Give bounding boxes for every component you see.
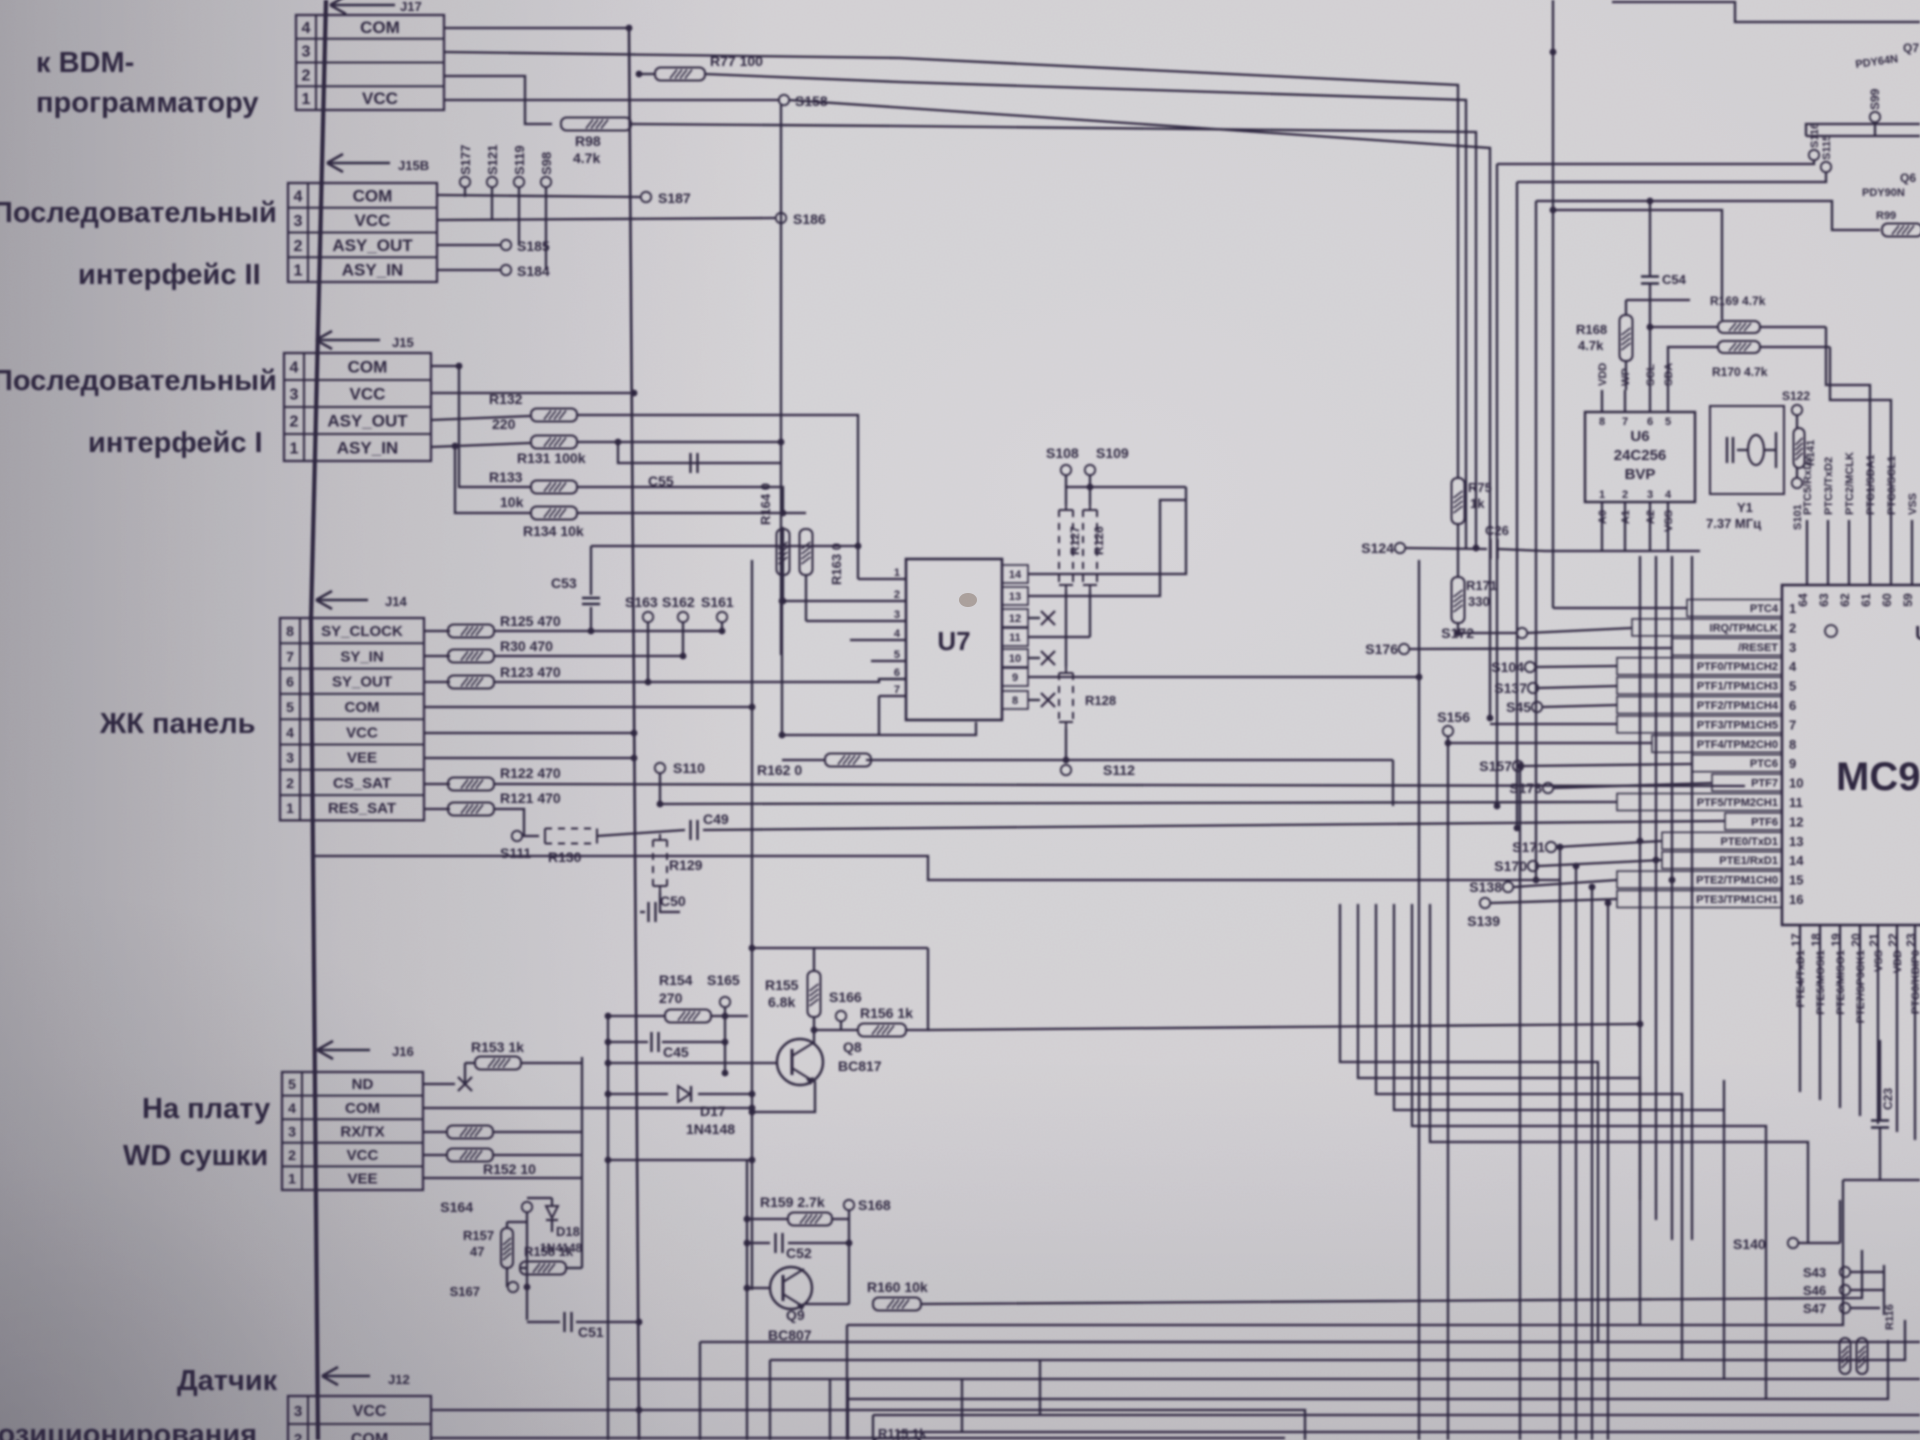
testpoint S187: [641, 190, 691, 206]
svg-text:59: 59: [1901, 593, 1915, 607]
wire S156 down: [1445, 736, 1452, 1440]
svg-text:S115: S115: [1821, 135, 1833, 160]
resistor R141 (vertical): [1794, 428, 1818, 468]
svg-text:4: 4: [302, 20, 311, 37]
testpoint S139: [1467, 898, 1500, 929]
svg-text:1: 1: [286, 800, 294, 816]
svg-text:PTC4: PTC4: [1750, 603, 1779, 615]
testpoint S119 with stub: [512, 145, 527, 245]
wire S168 column: [846, 1219, 853, 1304]
chip U6 24C256 body: [1585, 412, 1695, 502]
svg-text:R126: R126: [1092, 526, 1106, 555]
wire bundle vert 3: [1533, 201, 1540, 883]
svg-text:VSS: VSS: [1873, 950, 1885, 972]
svg-text:Последовательный: Последовательный: [0, 365, 277, 397]
U5 pin 5 label box PTF1/TPM1CH3: [1617, 677, 1796, 694]
resistor R162 0: [757, 732, 871, 778]
testpoint S140: [1733, 1236, 1840, 1252]
svg-text:4: 4: [288, 1100, 296, 1116]
arrow J12: [322, 1367, 410, 1387]
svg-text:Датчик: Датчик: [177, 1365, 278, 1397]
connector J15B: [288, 183, 437, 282]
text позиционирования: [0, 1419, 257, 1440]
svg-text:S45: S45: [1506, 699, 1531, 715]
wire S137 to pin5: [1539, 686, 1617, 688]
testpoint S108: [1046, 445, 1079, 487]
crystal Y1 box: [1710, 406, 1784, 494]
svg-text:S177: S177: [458, 145, 473, 175]
wire R169 ends: [1650, 326, 1826, 328]
testpoint S161: [701, 594, 734, 631]
testpoint S112: [1061, 762, 1135, 778]
U6 top pin 5 SDA: [1663, 363, 1675, 428]
svg-text:19: 19: [1829, 933, 1843, 947]
svg-text:20: 20: [1849, 933, 1863, 947]
svg-text:S47: S47: [1803, 1301, 1826, 1316]
wire net B (R77 out) to right bundle: [705, 74, 1466, 548]
testpoint S177 with stub: [458, 145, 473, 197]
testpoint S167: [450, 1282, 531, 1299]
svg-text:S164: S164: [440, 1199, 473, 1215]
svg-text:Q9: Q9: [786, 1307, 805, 1323]
wire S165 column: [722, 1016, 729, 1076]
svg-text:VEE: VEE: [347, 750, 377, 767]
svg-text:VSS: VSS: [1663, 510, 1675, 532]
wire Q9 base: [744, 1285, 769, 1292]
svg-text:6: 6: [286, 674, 294, 690]
testpoint S45: [1506, 699, 1542, 715]
svg-text:14: 14: [1009, 569, 1022, 581]
svg-text:6: 6: [1647, 416, 1653, 428]
wire R162 rail: [866, 760, 1393, 806]
resistor R160 10k: [867, 1279, 928, 1311]
wire crossing vert f: [1605, 900, 1612, 1440]
svg-text:ASY_IN: ASY_IN: [337, 439, 398, 458]
wire left vert x608: [607, 1016, 609, 1440]
wire bottom rail 3: [847, 1180, 1843, 1440]
resistor R155 6.8k (vertical): [765, 971, 821, 1017]
wire R134 out: [578, 510, 806, 517]
U7 pin 11 box: [1002, 628, 1028, 646]
U5 pin 8 label box PTF4/TPM2CH0: [1652, 735, 1796, 752]
svg-text:S46: S46: [1803, 1283, 1826, 1298]
wire R160 out long: [921, 1250, 1862, 1304]
wire R155 top: [752, 948, 814, 971]
svg-text:R153 1k: R153 1k: [471, 1039, 524, 1055]
resistor R134 10k: [523, 507, 584, 540]
wire J12.3 VCC: [431, 1407, 845, 1414]
wire crossing vert d: [1573, 863, 1580, 1440]
svg-text:PTF6: PTF6: [1751, 816, 1778, 828]
wire J14.6: [424, 681, 450, 683]
svg-text:COM: COM: [345, 1100, 380, 1117]
svg-text:2: 2: [294, 238, 303, 255]
wire net C (R98 out) to right bundle: [631, 124, 1479, 551]
svg-text:62: 62: [1838, 593, 1852, 607]
transistor Q9 BC807: [768, 1267, 812, 1343]
wire R77 net from V2: [636, 71, 655, 78]
text интерфейс II: [78, 259, 261, 291]
U5 top pin 59 VSS: [1901, 493, 1919, 607]
svg-text:S111: S111: [500, 845, 531, 861]
wire R171 to S172 rail: [1458, 623, 1516, 633]
wire vres R164 bottom to U7 pin2: [780, 527, 787, 604]
wire J12 VCC extension: [845, 1410, 1305, 1440]
svg-text:3: 3: [302, 44, 311, 61]
svg-text:2: 2: [290, 414, 299, 431]
U7 pin 10 box: [1002, 649, 1028, 667]
arrow J17: [330, 0, 422, 14]
svg-text:VCC: VCC: [362, 89, 398, 108]
svg-text:J17: J17: [400, 0, 422, 14]
wire crossing vert h: [1653, 556, 1660, 1220]
text к BDM-программатору: [36, 47, 259, 119]
svg-text:24C256: 24C256: [1614, 447, 1667, 464]
wire risers right of U6: [1826, 327, 1891, 520]
svg-text:PTF1/TPM1CH3: PTF1/TPM1CH3: [1697, 681, 1778, 693]
wire Q8 emitter: [749, 1081, 815, 1115]
svg-text:позиционирования: позиционирования: [0, 1419, 257, 1440]
svg-text:VCC: VCC: [350, 385, 386, 404]
wire vertical from S158 through S186: [780, 105, 782, 655]
svg-text:61: 61: [1859, 593, 1873, 607]
svg-text:C50: C50: [660, 893, 686, 909]
testpoint S185: [501, 238, 550, 254]
svg-text:8: 8: [1012, 695, 1018, 707]
svg-text:PTC2/MCLK: PTC2/MCLK: [1844, 452, 1856, 515]
svg-text:7: 7: [894, 684, 900, 696]
svg-text:Y1: Y1: [1737, 500, 1753, 515]
svg-text:R131 100k: R131 100k: [517, 450, 586, 466]
svg-text:8: 8: [286, 623, 294, 639]
wire rail to MCU pin11: [657, 801, 1617, 808]
svg-text:16: 16: [1789, 892, 1803, 907]
svg-text:SY_IN: SY_IN: [340, 648, 383, 665]
svg-text:S166: S166: [829, 989, 862, 1005]
svg-text:R154: R154: [659, 972, 693, 988]
svg-text:4: 4: [1665, 489, 1672, 501]
capacitor C23: [1871, 1040, 1895, 1180]
wire R163 bottom to U7 pin3: [805, 575, 807, 621]
svg-text:программатору: программатору: [36, 87, 259, 119]
svg-text:1: 1: [290, 441, 299, 458]
svg-text:R170 4.7k: R170 4.7k: [1712, 365, 1768, 379]
wire R127 to R128: [1065, 591, 1067, 667]
capacitor C50: [640, 893, 686, 922]
svg-text:PTE2/TPM1CH0: PTE2/TPM1CH0: [1696, 875, 1778, 887]
svg-text:PTE5/MOSI1: PTE5/MOSI1: [1815, 950, 1827, 1015]
resistor R-edge1 (partial): [1876, 210, 1920, 237]
wire J17.2 via R98: [444, 76, 552, 124]
svg-text:6: 6: [894, 667, 900, 679]
maze wire 2: [1358, 904, 1640, 1325]
wire net C down to C26 rail: [1473, 545, 1480, 552]
wire S99 net: [1806, 124, 1920, 136]
svg-text:R123 470: R123 470: [500, 664, 561, 680]
wire S138 to pin15: [1514, 880, 1617, 887]
wire R121 out: [494, 809, 539, 836]
svg-text:VCC: VCC: [355, 211, 391, 230]
wire J17.1 VCC long: [444, 99, 780, 101]
wire bottom rail 2: [770, 1320, 1905, 1440]
dashed resistor R129: [653, 834, 703, 912]
svg-text:23: 23: [1904, 933, 1918, 947]
resistor R171 330 (vertical): [1452, 577, 1498, 623]
svg-text:COM: COM: [353, 186, 393, 205]
svg-text:VSS: VSS: [1907, 493, 1919, 515]
wire bottom rail 1: [700, 1342, 1920, 1440]
arrow J15B: [327, 154, 429, 173]
U7 pin 5 stub: [871, 649, 906, 661]
svg-text:R77 100: R77 100: [710, 53, 763, 69]
svg-text:PTE0/TxD1: PTE0/TxD1: [1721, 836, 1778, 848]
svg-text:ЖК панель: ЖК панель: [99, 708, 256, 740]
text Q6: [1862, 171, 1916, 199]
svg-text:13: 13: [1789, 834, 1803, 849]
svg-text:S167: S167: [450, 1284, 480, 1299]
svg-text:PDY90N: PDY90N: [1862, 187, 1905, 199]
svg-text:4.7k: 4.7k: [1578, 338, 1604, 353]
resistor R132 220: [489, 391, 577, 432]
svg-text:BC807: BC807: [768, 1327, 812, 1343]
wire V3 vertical: [1552, 0, 1554, 608]
wire R154 out: [711, 1013, 748, 1020]
svg-text:C26: C26: [1485, 523, 1509, 538]
svg-text:PTF4/TPM2CH0: PTF4/TPM2CH0: [1697, 739, 1778, 751]
resistor R152 10: [447, 1149, 582, 1178]
svg-text:12: 12: [1789, 814, 1803, 829]
wire J17.4 COM to V2: [444, 25, 632, 32]
svg-text:S99: S99: [1868, 88, 1882, 110]
svg-text:1k: 1k: [1470, 496, 1485, 511]
U7 pin 8 box: [1002, 691, 1028, 709]
U5 pin 3 label box /RESET: [1672, 638, 1796, 655]
U5 top pin 64 PTC5/RxD2: [1796, 456, 1814, 607]
resistor R130 (dashed): [545, 829, 597, 866]
U5 bottom pin 17 PTE4/TxD1: [1789, 925, 1807, 1092]
svg-text:IRQ/TPMCLK: IRQ/TPMCLK: [1710, 622, 1778, 634]
wire rail y1160: [605, 1157, 756, 1164]
svg-text:18: 18: [1809, 933, 1823, 947]
svg-text:S138: S138: [1469, 879, 1502, 895]
wire crossing vert c: [1557, 844, 1564, 1440]
capacitor C45: [605, 1032, 725, 1060]
svg-text:R155: R155: [765, 977, 799, 993]
testpoint S171: [1512, 839, 1556, 855]
wire SCL riser: [1647, 324, 1654, 390]
U5 pin 7 label box PTF3/TPM1CH5: [1617, 716, 1796, 733]
svg-text:PTF0/TPM1CH2: PTF0/TPM1CH2: [1697, 661, 1778, 673]
U7 pin10 no-connect: [1028, 651, 1055, 665]
U5 top pin 62 PTC2/MCLK: [1838, 452, 1856, 607]
testpoint S164: [440, 1199, 532, 1320]
diode D17 1N4148: [605, 1086, 756, 1137]
svg-text:PTC3/TxD2: PTC3/TxD2: [1823, 457, 1835, 515]
svg-text:R121 470: R121 470: [500, 790, 561, 806]
testpoint S158: [779, 93, 828, 109]
svg-text:S124: S124: [1361, 540, 1394, 556]
testpoint S168: [844, 1197, 891, 1219]
svg-text:R116: R116: [1884, 1304, 1896, 1330]
svg-text:C55: C55: [648, 473, 674, 489]
testpoint S111: [500, 831, 531, 861]
U6 top pin 8 VDD: [1597, 363, 1609, 428]
chip U5 pin1 index circle: [1825, 625, 1837, 637]
wire R154 rail: [605, 1013, 665, 1020]
connector J12: [288, 1396, 431, 1440]
svg-text:4: 4: [290, 360, 299, 377]
svg-text:/RESET: /RESET: [1738, 642, 1778, 654]
svg-text:1N4148: 1N4148: [686, 1121, 735, 1137]
svg-text:10: 10: [1009, 653, 1021, 665]
svg-text:PTC5/RxD2: PTC5/RxD2: [1802, 456, 1814, 515]
U5 bottom pin 23 PTG0/KBIP0: [1904, 925, 1920, 1140]
svg-text:C52: C52: [786, 1245, 812, 1261]
text На плату: [142, 1093, 270, 1125]
svg-text:2: 2: [288, 1147, 296, 1163]
svg-text:R162 0: R162 0: [757, 762, 802, 778]
testpoint S165: [707, 972, 740, 1016]
wire R128 bottom: [1063, 728, 1070, 763]
svg-text:8: 8: [1599, 416, 1605, 428]
svg-text:63: 63: [1817, 593, 1831, 607]
resistor R128 (dashed): [1059, 667, 1116, 728]
capacitor C51: [527, 1312, 642, 1340]
wire net D (VCC) continues: [789, 100, 1490, 718]
svg-text:5: 5: [286, 699, 294, 715]
testpoint S170: [1494, 858, 1538, 874]
testpoint S110: [655, 760, 705, 804]
connector J15: [284, 353, 431, 461]
wire J15.3 VCC to V2: [431, 390, 637, 397]
wire pin7 stub: [1487, 715, 1617, 724]
testpoint S101: [1792, 468, 1804, 530]
resistor R115 1k label: [878, 1426, 927, 1440]
wire J15.2 ASY_OUT: [431, 416, 530, 420]
resistor R30 470: [448, 638, 553, 663]
resistor R164 0 (vertical): [758, 483, 790, 575]
svg-text:MC9S: MC9S: [1836, 755, 1920, 799]
testpoint S124: [1361, 540, 1405, 556]
wire R159 rail: [744, 1216, 788, 1223]
resistor R126 (dashed): [1083, 504, 1106, 591]
wire to R134: [455, 447, 530, 513]
U7 pin 2 stub: [783, 589, 906, 601]
connector J16: [282, 1072, 423, 1190]
arrow J16: [317, 1041, 414, 1059]
U5 pin 2 label box IRQ/TPMCLK: [1632, 619, 1796, 636]
svg-text:S157: S157: [1479, 758, 1512, 774]
svg-text:COM: COM: [345, 699, 380, 716]
svg-text:S116: S116: [1809, 123, 1821, 148]
U7 pin 9 box: [1002, 668, 1028, 686]
U7 pin 4 stub: [850, 628, 906, 640]
text Q7: [1855, 41, 1920, 71]
U5 bottom pin 18 PTE5/MOSI1: [1809, 925, 1827, 1100]
wire R30 out: [494, 653, 686, 660]
U7 pin 14 box: [1002, 565, 1028, 583]
resistor R156 1k: [858, 1005, 913, 1037]
svg-text:PTF2/TPM1CH4: PTF2/TPM1CH4: [1697, 700, 1779, 712]
wire S139 to pin16: [1491, 899, 1617, 903]
wire V4b down: [746, 1160, 748, 1440]
svg-text:PTE3/TPM1CH1: PTE3/TPM1CH1: [1696, 894, 1778, 906]
resistor R170 4.7k: [1712, 341, 1768, 379]
svg-text:5: 5: [1789, 679, 1796, 694]
svg-text:13: 13: [1009, 591, 1021, 603]
svg-text:S156: S156: [1437, 709, 1470, 725]
svg-text:R152 10: R152 10: [483, 1161, 536, 1177]
svg-text:1: 1: [894, 567, 900, 579]
U5 pin 12 label box PTF6: [1725, 813, 1803, 830]
wire J15B.2 ASY_OUT: [437, 244, 500, 246]
U5 bottom pin 22 VDD: [1886, 925, 1904, 1132]
svg-text:J12: J12: [388, 1372, 410, 1387]
svg-text:ASY_OUT: ASY_OUT: [332, 236, 413, 255]
wire U7 pin9 right: [1028, 674, 1422, 681]
svg-text:R160 10k: R160 10k: [867, 1279, 928, 1295]
svg-text:S170: S170: [1494, 858, 1527, 874]
testpoint S116: [1809, 123, 1821, 160]
wire S157 to PTC6: [1524, 764, 1692, 766]
svg-text:PTE6/MISO1: PTE6/MISO1: [1835, 950, 1847, 1015]
svg-text:J15B: J15B: [398, 158, 429, 173]
svg-text:VCC: VCC: [346, 724, 378, 741]
capacitor C55: [648, 453, 698, 489]
wire Q9 collector to R160: [806, 1302, 849, 1304]
wire J15B.1 ASY_IN: [437, 269, 500, 271]
svg-text:8: 8: [1789, 737, 1796, 752]
connector J14: [280, 618, 424, 820]
text ЖК панель: [99, 708, 256, 740]
wire bundle 4: [1550, 207, 1722, 320]
svg-text:R134 10k: R134 10k: [523, 523, 584, 539]
svg-text:S109: S109: [1096, 445, 1129, 461]
svg-text:S173: S173: [1509, 780, 1542, 796]
svg-text:S176: S176: [1365, 641, 1398, 657]
wire J16.1 VEE: [423, 1177, 582, 1179]
wire J15B.3 VCC: [437, 218, 775, 220]
text интерфейс I: [88, 427, 263, 459]
wire J14.7: [424, 655, 450, 657]
resistor R168 4.7k (vertical): [1576, 300, 1633, 390]
svg-text:3: 3: [1789, 640, 1796, 655]
wire R130 to C49: [597, 830, 685, 836]
U5 pin 14 label box PTE1/RxD1: [1662, 852, 1804, 869]
svg-text:J15: J15: [392, 335, 414, 350]
wire J14.1 RES_SAT: [424, 808, 450, 810]
wire J16.5 ND no-connect: [423, 1077, 472, 1091]
svg-text:3: 3: [286, 750, 294, 766]
wire PTC4 to V3: [1553, 607, 1687, 609]
svg-text:S112: S112: [1103, 762, 1135, 778]
svg-text:270: 270: [659, 990, 683, 1006]
wire rail C49 to MCU pin12: [703, 821, 1725, 830]
wire J14.8: [424, 630, 450, 632]
wire R170 ends: [1668, 347, 1830, 390]
testpoint S104: [1491, 659, 1535, 675]
wire R75 to R171: [1457, 524, 1459, 577]
bundle wire 2: [1517, 172, 1826, 182]
wire net A (J17.3) to right bundle: [444, 52, 1458, 478]
svg-text:R168: R168: [1576, 322, 1607, 337]
arrow J15: [316, 331, 414, 350]
svg-text:PTF7: PTF7: [1751, 778, 1778, 790]
svg-text:WD сушки: WD сушки: [123, 1140, 268, 1172]
svg-text:5: 5: [288, 1076, 296, 1092]
U5 pin 9 label box PTC6: [1692, 755, 1796, 772]
resistor RX/TX series: [447, 1126, 582, 1139]
